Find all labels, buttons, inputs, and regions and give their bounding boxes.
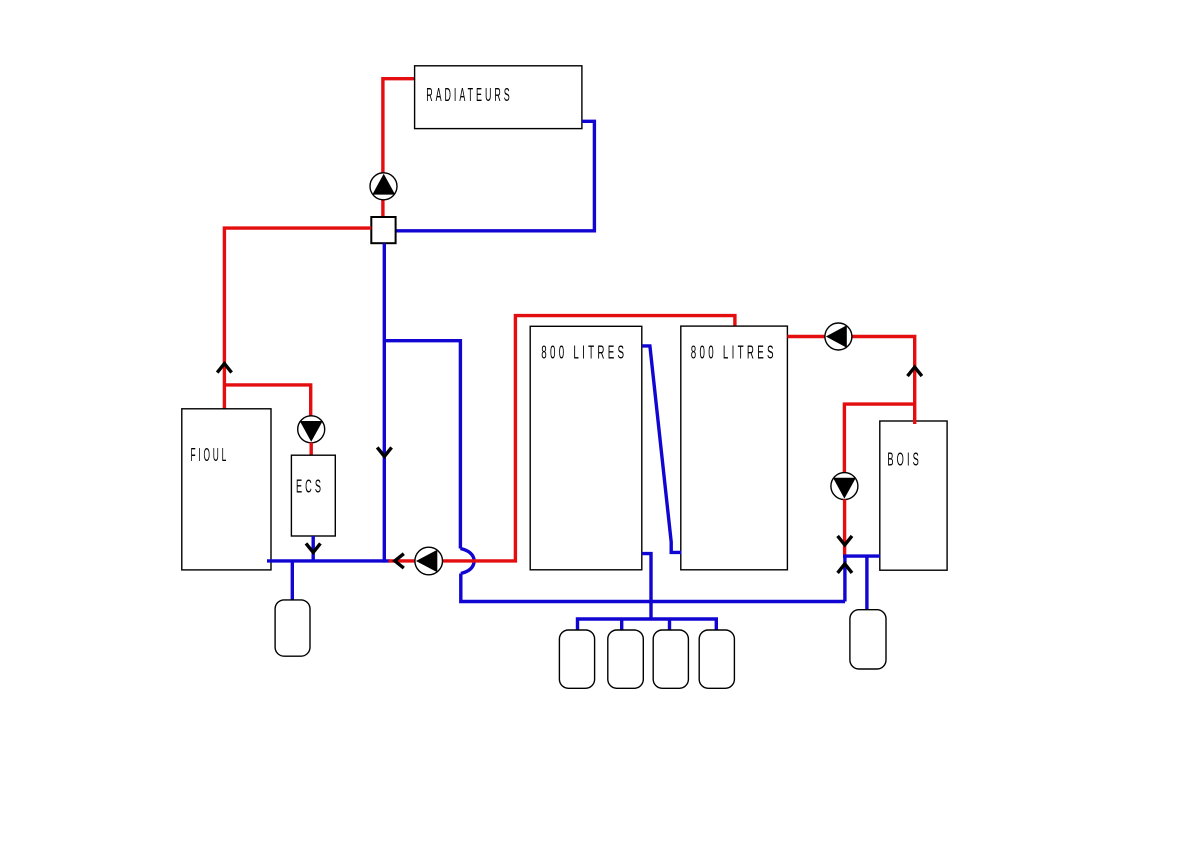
expansion vessel V1 (275, 600, 310, 656)
wire red pump P5 down to junction (843, 499, 846, 555)
wire blue radiator return (396, 121, 594, 231)
boiler box FIOUL (182, 409, 271, 570)
arrow down on BOIS return (838, 536, 852, 545)
wire blue manifold drop 3 (668, 619, 671, 632)
wire red pump P1 outlet stub (381, 200, 384, 218)
wire blue bottom left header (267, 559, 390, 562)
expansion vessel V2 (559, 630, 594, 688)
arrow left on boiler flow (395, 554, 404, 568)
expansion vessel V5 (699, 630, 734, 688)
arrow up on BOIS riser (908, 367, 922, 376)
arrow down on main return (377, 447, 391, 456)
wire red tank2 to BOIS riser (787, 337, 914, 425)
expansion vessel V6 (850, 610, 886, 669)
wire blue branch to hop (384, 341, 460, 549)
tank box ECS (291, 455, 335, 536)
svg-text:RADIATEURS: RADIATEURS (426, 85, 513, 105)
arrow down below ECS (306, 543, 320, 552)
storage tank 1 (530, 326, 642, 570)
wire blue manifold drop 2 (620, 619, 623, 632)
wire blue hop over red (460, 549, 474, 574)
wire red square to left riser to FIOUL (224, 228, 371, 409)
wire blue hop to bottom long return (461, 574, 845, 602)
svg-text:BOIS: BOIS (887, 450, 922, 470)
wire red boiler flow to storage (389, 316, 735, 561)
radiator box RADIATEURS (415, 66, 582, 129)
boiler box BOIS (880, 421, 947, 570)
wire blue junction to BOIS inlet (843, 554, 880, 557)
storage tank 2 (681, 326, 788, 570)
wire blue junction down to long return (843, 556, 846, 601)
pump P4 (decharge bois) (825, 323, 852, 350)
pump P1 (circulateur radiateurs) (370, 173, 397, 200)
arrow up on blue riser right (838, 564, 852, 573)
wire blue main return vertical from valve (383, 243, 386, 562)
wire blue manifold (578, 619, 717, 632)
expansion vessel V3 (608, 630, 644, 688)
wire blue diagonal tank1 to tank2 (642, 346, 682, 553)
wire red BOIS tee to pump P5 (844, 404, 914, 472)
wire blue ECS drain (312, 536, 315, 561)
arrow up on left riser (217, 364, 231, 373)
wire blue tank1 bottom outlet (642, 554, 651, 619)
wire red branch to ECS pump (224, 385, 310, 416)
pump P3 (charge ballons) (415, 547, 443, 575)
pump P2 (charge ECS) (298, 416, 325, 443)
wire red radiator supply (383, 79, 415, 173)
svg-text:800 LITRES: 800 LITRES (691, 343, 777, 363)
svg-text:FIOUL: FIOUL (191, 445, 230, 465)
wire red pump P2 to ECS top (310, 443, 313, 457)
wire blue right vessel stub (865, 556, 868, 610)
svg-text:ECS: ECS (296, 476, 324, 496)
wire blue expansion vessel stub left (291, 561, 294, 601)
svg-text:800 LITRES: 800 LITRES (541, 343, 627, 363)
expansion vessel V4 (653, 630, 688, 688)
pump P5 (charge bois) (831, 473, 858, 500)
valve mixing square (371, 217, 395, 243)
